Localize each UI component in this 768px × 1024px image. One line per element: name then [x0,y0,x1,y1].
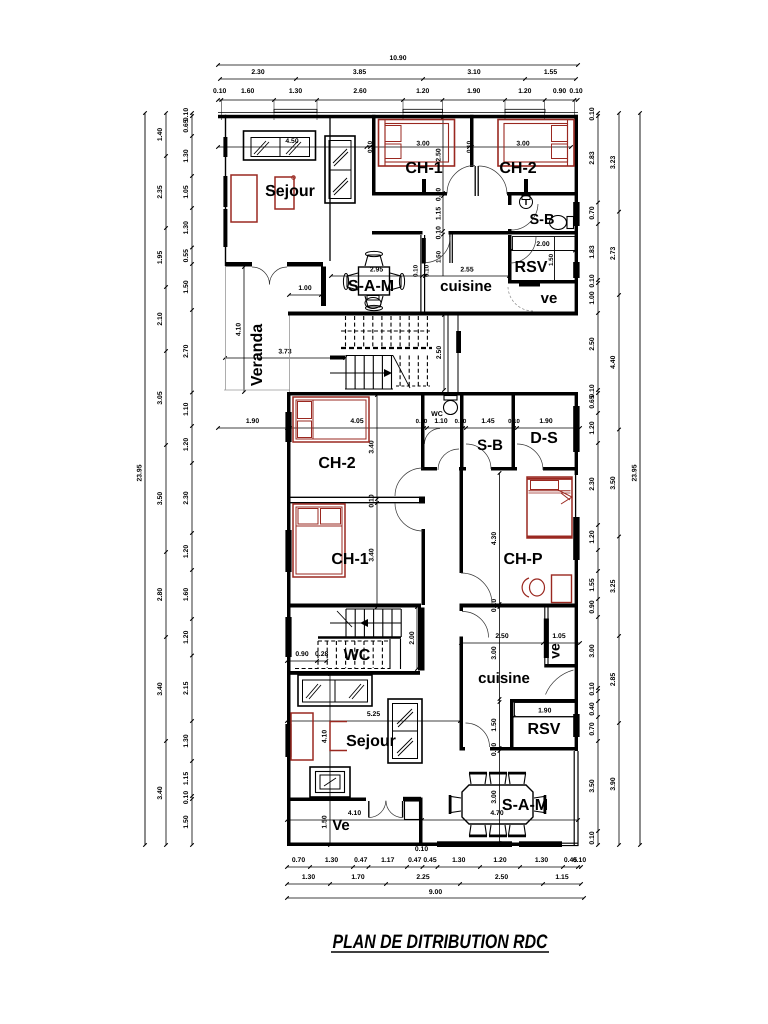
wall cuisine/RSV bottom y749 with door gap [460,747,579,751]
interior vertical dimension x377 (3.40/3.40) [369,393,379,609]
room label Ve lower [332,817,350,834]
wall sejour bottom lower with french door [287,798,366,802]
window CH-1 left [285,530,291,572]
door arc CH-2 upper [479,166,508,194]
svg-text:1.55: 1.55 [544,69,557,76]
svg-text:1.30: 1.30 [302,874,315,881]
room label CH-1 lower [331,551,368,568]
svg-text:1.30: 1.30 [183,221,190,234]
room label cuisine lower [478,670,530,687]
dimension 2.00 RSV upper [509,241,577,266]
svg-text:1.10: 1.10 [183,402,190,415]
svg-text:3.90: 3.90 [610,777,617,790]
svg-text:1.90: 1.90 [467,88,480,95]
svg-text:WC: WC [344,647,371,664]
lower apartment top wall [287,392,578,396]
svg-text:PLAN DE DITRIBUTION RDC: PLAN DE DITRIBUTION RDC [333,931,549,953]
svg-text:3.05: 3.05 [157,391,164,404]
door arc WC lower top [425,429,460,471]
svg-text:1.20: 1.20 [183,438,190,451]
svg-text:0.47: 0.47 [408,857,421,864]
room label RSV lower [528,721,561,738]
room label Sejour upper [265,183,315,200]
door arc CH-1 lower [395,504,423,532]
table S-A-M upper with chairs [343,251,404,310]
svg-text:1.15: 1.15 [436,207,443,220]
black sill bottom left [437,841,512,847]
wall S-B/D-S partition [512,396,516,468]
svg-text:S-B: S-B [477,437,503,454]
svg-text:0.90: 0.90 [589,600,596,613]
svg-text:cuisine: cuisine [440,278,492,295]
svg-text:1.83: 1.83 [589,245,596,258]
door arc CH-1 upper [447,166,475,194]
dimension chain top row 0.10..0.10 [213,88,583,120]
svg-text:1.50: 1.50 [548,253,555,266]
svg-text:2.30: 2.30 [589,477,596,490]
svg-text:cuisine: cuisine [478,670,530,687]
room label CH-P [503,551,542,568]
room label S-A-M lower [502,797,548,814]
wall south of CH-1/CH-2 with door openings [372,166,578,196]
room label D-S [530,430,558,447]
svg-text:4.05: 4.05 [350,418,363,425]
dimension chain bottom row 0.70..0.10 [285,846,586,869]
svg-text:0.10: 0.10 [569,88,582,95]
red cabinet sejour upper left [231,175,257,222]
room label WC small upper-lower [431,411,443,418]
svg-text:1.30: 1.30 [289,88,302,95]
svg-text:3.25: 3.25 [610,579,617,592]
svg-text:1.55: 1.55 [589,578,596,591]
armchair sejour lower [388,699,422,763]
svg-text:2.50: 2.50 [495,633,508,640]
svg-text:1.45: 1.45 [481,418,494,425]
svg-text:3.50: 3.50 [610,476,617,489]
armchair sejour upper [325,136,355,203]
svg-text:10.90: 10.90 [389,55,406,62]
svg-text:1.17: 1.17 [381,857,394,864]
svg-text:4.10: 4.10 [348,810,361,817]
svg-text:0.90: 0.90 [295,651,308,658]
window D-S right [573,406,579,452]
wall cuisine left lower with door gap [460,608,464,751]
svg-text:3.00: 3.00 [491,790,498,803]
svg-text:1.30: 1.30 [325,857,338,864]
svg-text:0.90: 0.90 [553,88,566,95]
stairwell right wall double [448,316,461,393]
toilet WC lower top [444,396,458,415]
bottom outer wall lower [287,843,579,847]
svg-text:3.10: 3.10 [467,69,480,76]
svg-text:0.10: 0.10 [589,274,596,287]
room label S-B lower [477,437,503,454]
red table sejour upper [275,176,295,209]
door arc cuisine lower top [462,611,489,637]
svg-text:3.40: 3.40 [157,786,164,799]
wall corridor/CH-P x461 [460,471,464,574]
window lintel CH-1 top [403,109,443,112]
svg-text:0.28: 0.28 [315,651,328,658]
interior vertical dimension x443 (2.50/1.15) [436,115,445,276]
chair CH-P [522,578,544,597]
svg-text:2.15: 2.15 [183,681,190,694]
svg-text:0.65: 0.65 [183,119,190,132]
door arc S-B upper [511,204,538,230]
wall CH-1/CH-2 [470,115,474,167]
window lintel CH-2 top [505,109,545,112]
tv table sejour lower [310,767,350,797]
svg-text:4.10: 4.10 [236,323,243,336]
wall below stairs y672 [287,671,420,675]
svg-text:2.60: 2.60 [353,88,366,95]
svg-text:D-S: D-S [530,430,558,447]
window lintel sejour top [274,109,317,112]
svg-text:3.85: 3.85 [353,69,366,76]
svg-text:1.30: 1.30 [452,857,465,864]
wall CH-2/CH-1 divider lower [291,497,426,504]
window RSV right upper [573,262,579,278]
wall RSV top lower [510,699,578,703]
svg-text:2.25: 2.25 [416,874,429,881]
svg-text:1.05: 1.05 [552,633,565,640]
interior dimension row lower y428 1.90/4.05/1.10/1.45/1.90 [216,418,582,430]
room label CH-2 lower [318,455,355,472]
room label WC lower [344,647,371,664]
svg-text:0.10: 0.10 [573,857,586,864]
wall bottom of upper apartment y313 [288,312,578,316]
door arc cuisine lower bottom [466,723,490,747]
svg-text:3.00: 3.00 [589,644,596,657]
svg-text:1.60: 1.60 [183,588,190,601]
window sejour left lower [285,724,291,757]
svg-text:CH-2: CH-2 [318,455,355,472]
svg-text:1.20: 1.20 [589,530,596,543]
svg-text:1.30: 1.30 [535,857,548,864]
wall stub in CH-1 [422,179,426,193]
svg-text:2.30: 2.30 [251,69,264,76]
bed CH-2 lower [293,397,369,442]
window WC left [285,617,291,657]
dimension chain bottom row 1.30/1.70/2.25/2.50/1.15 [285,874,583,886]
svg-text:4.10: 4.10 [322,730,329,743]
dining table S-A-M lower with chairs [450,773,545,836]
door pocket wall x401-422 [403,797,423,846]
dimension chain top row 2.30/3.85/3.10/1.55 [218,69,578,81]
svg-text:0.70: 0.70 [589,722,596,735]
door arc CH-P [461,573,492,604]
dimension 2.00 WC height [409,605,419,671]
interior vertical dimension x499 (4.30/3.00/1.50/3.00) [491,471,501,845]
svg-text:2.35: 2.35 [157,185,164,198]
wall S-A-M/cuisine x420 [421,235,426,312]
svg-text:2.50: 2.50 [589,337,596,350]
svg-text:1.10: 1.10 [434,418,447,425]
dimension chain bottom total 9.00 [285,889,586,900]
svg-text:0.70: 0.70 [292,857,305,864]
dimension row 4.10/4.70 y820 [285,810,580,822]
wall stub in CH-2 [524,179,528,193]
dimension chain right column middle [610,111,621,847]
svg-text:1.15: 1.15 [183,772,190,785]
door arc CH-2 lower [395,468,423,496]
svg-text:0.10: 0.10 [369,494,376,507]
svg-text:1.60: 1.60 [241,88,254,95]
dimension chain right column inner [589,107,600,847]
svg-text:3.50: 3.50 [157,492,164,505]
dimension row 2.50/1.05 cuisine-ve y643 [459,633,582,645]
room label cuisine upper [440,278,492,295]
room label Veranda [249,324,266,386]
svg-text:1.20: 1.20 [416,88,429,95]
stairs lower solid flight [318,609,401,638]
stairs upper solid flight [330,356,430,390]
svg-text:CH-1: CH-1 [331,551,368,568]
outer wall right lower [574,392,578,846]
svg-text:1.40: 1.40 [157,128,164,141]
room label Sejour lower [346,733,396,750]
svg-text:2.50: 2.50 [436,346,443,359]
svg-text:1.20: 1.20 [589,421,596,434]
svg-text:3.23: 3.23 [610,156,617,169]
svg-text:0.10: 0.10 [589,107,596,120]
svg-text:Ve: Ve [332,817,350,834]
dimension 1.90 RSV lower [512,708,578,719]
svg-text:1.95: 1.95 [157,251,164,264]
dimension chain left column A [157,111,168,847]
room label CH-1 upper [405,160,442,177]
svg-text:2.83: 2.83 [589,151,596,164]
red table sejour lower [330,722,347,751]
bed CH-P [527,477,572,538]
door arc cuisine upper [426,237,451,263]
bed CH-1 upper [379,120,455,167]
svg-text:0.10: 0.10 [589,831,596,844]
wall x323 hall piece [321,267,326,307]
desk CH-P [552,575,572,603]
wall RSV bottom upper [508,280,578,284]
svg-text:Sejour: Sejour [346,733,396,750]
outer wall top [218,113,578,119]
dimension 1.00 sejour passage [287,285,323,297]
wall RSV left upper [508,235,512,283]
svg-text:1.00: 1.00 [589,291,596,304]
svg-text:2.73: 2.73 [610,247,617,260]
svg-text:3.40: 3.40 [369,548,376,561]
door leaves + arcs sejour lower french doors [369,801,403,818]
svg-text:1.50: 1.50 [183,815,190,828]
svg-text:1.90: 1.90 [538,708,551,715]
svg-text:2.70: 2.70 [183,344,190,357]
interior dimension row through CH-1/CH-2 y147 [216,138,573,153]
window S-B right [573,202,579,226]
wall y468 below S-B/D-S with door gaps [421,467,578,471]
bed CH-1 lower [293,504,345,577]
svg-text:Veranda: Veranda [249,324,266,386]
svg-text:1.30: 1.30 [183,149,190,162]
svg-text:3.00: 3.00 [516,141,529,148]
veranda boundary [224,266,290,392]
svg-text:0.47: 0.47 [354,857,367,864]
room label S-A-M upper [348,278,394,295]
dimension 4.10 veranda [236,265,246,394]
svg-text:Sejour: Sejour [265,183,315,200]
svg-text:3.50: 3.50 [589,779,596,792]
bed CH-2 upper [498,120,574,167]
svg-text:1.50: 1.50 [183,280,190,293]
wall below ve lower [545,664,579,668]
dimension chain left column B [183,108,194,847]
svg-text:3.00: 3.00 [491,646,498,659]
wall S-B lower left x461 [460,396,464,468]
svg-text:2.55: 2.55 [460,267,473,274]
window RSV right lower [573,714,579,737]
toilet S-B upper [550,216,574,230]
svg-text:1.20: 1.20 [493,857,506,864]
svg-text:1.20: 1.20 [183,630,190,643]
door arc S-B lower [466,444,491,469]
svg-text:0.55: 0.55 [183,249,190,262]
svg-text:1.20: 1.20 [518,88,531,95]
interior dimension row S-A-M/cuisine y276 [329,264,511,277]
wall WC right lower [418,608,425,671]
door arc D-S [517,444,543,470]
svg-text:1.50: 1.50 [491,718,498,731]
svg-text:WC: WC [431,411,443,418]
wall WC-upper left x423 [421,396,425,469]
sink S-B upper [520,196,533,209]
svg-text:ve: ve [547,643,563,659]
outer wall left (sejour, with windows) [223,115,227,266]
svg-text:S-A-M: S-A-M [502,797,548,814]
svg-text:2.00: 2.00 [536,241,549,248]
svg-text:4.30: 4.30 [491,532,498,545]
svg-text:0.65: 0.65 [589,395,596,408]
RSV shelf upper [513,237,576,284]
door arc RSV upper [510,237,536,263]
svg-text:0.70: 0.70 [589,206,596,219]
window CH-P right [573,517,579,560]
svg-text:1.00: 1.00 [298,285,311,292]
wall cuisine/ve divider lower [544,608,549,668]
svg-text:ve: ve [541,290,558,307]
svg-text:0.10: 0.10 [213,88,226,95]
dimension 0.90/0.28 WC [285,651,328,663]
door arc sejour entry double [252,267,287,285]
svg-text:CH-P: CH-P [503,551,542,568]
svg-text:1.15: 1.15 [555,874,568,881]
svg-text:5.25: 5.25 [367,711,380,718]
stair left stub wall [330,356,345,360]
svg-text:0.10: 0.10 [436,226,443,239]
stairs lower dashed flight (under WC) [295,639,401,669]
toilet near stairs upper [365,296,381,309]
dimension chain top total 10.90 [216,55,580,67]
svg-text:2.30: 2.30 [183,491,190,504]
outer wall left lower [287,392,291,846]
svg-text:1.90: 1.90 [246,418,259,425]
corridor wall x423 with CH door gaps [422,529,426,605]
svg-text:23.95: 23.95 [137,464,144,481]
svg-text:0.10: 0.10 [183,791,190,804]
wall S-B left with door gap [508,196,512,233]
red cabinet sejour lower [291,713,313,760]
svg-text:2.80: 2.80 [157,588,164,601]
wall y232 corridor/S-B bottom [372,231,578,263]
room label ve lower [547,643,563,659]
svg-text:3.00: 3.00 [416,141,429,148]
svg-text:1.50: 1.50 [322,815,329,828]
svg-text:2.10: 2.10 [157,312,164,325]
svg-text:1.70: 1.70 [351,874,364,881]
room label CH-2 upper [499,160,536,177]
svg-text:CH-2: CH-2 [499,160,536,177]
svg-text:1.20: 1.20 [183,545,190,558]
stairs upper dashed flight [341,316,432,348]
svg-text:S-A-M: S-A-M [348,278,394,295]
dimension 2.50 stairwell [436,313,446,392]
svg-text:0.45: 0.45 [423,857,436,864]
svg-text:RSV: RSV [528,721,561,738]
black sill below RSV upper [519,281,540,287]
partition sejour x330 [329,117,331,261]
dimension line right outer 23.95 [632,111,642,847]
svg-text:S-B: S-B [530,212,555,228]
title PLAN DE DITRIBUTION RDC [331,931,549,953]
svg-text:23.95: 23.95 [632,464,639,481]
wall CH-1 left [372,115,376,196]
wall sejour bottom with door opening [225,262,323,267]
door arc ve upper (dashed) [508,287,533,311]
room label ve upper [541,290,558,307]
black sill bottom right [519,841,562,847]
wall CH-P bottom / cuisine top y605 [287,604,578,608]
svg-text:2.50: 2.50 [495,874,508,881]
window CH-2 left [285,412,291,442]
room label S-B upper [530,212,555,228]
svg-text:1.30: 1.30 [183,734,190,747]
svg-text:4.40: 4.40 [610,355,617,368]
outer wall right upper [575,115,578,316]
svg-text:RSV: RSV [515,259,548,276]
svg-text:0.40: 0.40 [589,702,596,715]
svg-text:9.00: 9.00 [429,889,442,896]
svg-text:0.10: 0.10 [415,846,428,853]
svg-text:2.00: 2.00 [409,631,416,644]
svg-text:4.50: 4.50 [285,138,298,145]
svg-text:3.40: 3.40 [157,682,164,695]
interior vertical dimension x330 (4.10/1.50) [322,672,332,847]
sofa sejour upper [244,131,316,160]
dimension line left outer 23.95 [137,111,147,847]
sofa sejour lower [298,675,372,706]
svg-text:1.90: 1.90 [539,418,552,425]
svg-text:1.05: 1.05 [183,185,190,198]
svg-text:0.10: 0.10 [589,682,596,695]
svg-text:CH-1: CH-1 [405,160,442,177]
wall RSV left lower [510,699,514,751]
RSV shelf lower [515,703,577,717]
svg-text:2.85: 2.85 [610,673,617,686]
dimension 5.25 sejour lower [285,711,462,723]
svg-text:0.10: 0.10 [413,264,420,277]
dimension 3.73 veranda [223,349,347,360]
door arc ve lower [546,670,574,695]
svg-text:0.10: 0.10 [183,108,190,121]
room label RSV upper [515,259,548,276]
